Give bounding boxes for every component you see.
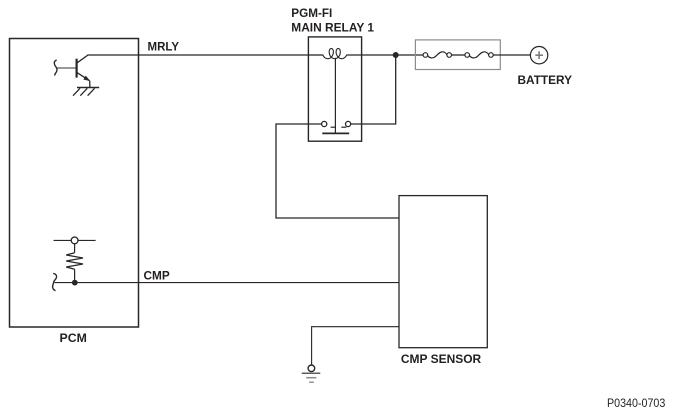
node junction (relay output) (393, 52, 399, 58)
svg-text:CMP SENSOR: CMP SENSOR (401, 352, 482, 366)
svg-text:CMP: CMP (144, 268, 170, 282)
wire MRLY (collector to relay coil) (88, 54, 309, 56)
svg-text:MAIN RELAY 1: MAIN RELAY 1 (291, 20, 374, 34)
wire relay coil stub (308, 54, 323, 56)
wire sensor to ground (312, 327, 399, 365)
ground (earth, sensor) (302, 365, 321, 382)
ground (chassis, emitter) (73, 81, 99, 96)
svg-text:P0340-0703: P0340-0703 (607, 397, 665, 410)
wire fuse box to battery (493, 54, 530, 56)
wire junction to fuse box (396, 54, 423, 56)
battery terminal B+ (530, 47, 547, 64)
transistor Q1 (54, 55, 90, 81)
relay box (PGM-FI MAIN RELAY 1) (308, 37, 361, 141)
svg-text:BATTERY: BATTERY (518, 73, 573, 87)
svg-text:PCM: PCM (60, 331, 87, 345)
relay switch contacts (322, 121, 351, 133)
wire coil armature link (334, 58, 336, 134)
svg-text:PGM-FI: PGM-FI (291, 6, 332, 20)
svg-text:MRLY: MRLY (148, 39, 180, 53)
wire coil to junction (346, 54, 395, 56)
wire switch left to CMP sensor (276, 124, 399, 218)
CMP SENSOR box (399, 196, 487, 348)
fuse box (415, 40, 500, 70)
wire between fuses (452, 54, 465, 56)
wire CMP (PCM to sensor) (55, 282, 400, 284)
wire break squiggle (CMP) (53, 273, 57, 290)
fuse F1 (423, 52, 451, 58)
relay coil L1 (323, 48, 347, 58)
wire switch right to junction (351, 55, 396, 124)
fuse F2 (465, 52, 493, 58)
resistor R1 (pull-up) (54, 237, 96, 282)
node CMP junction (72, 280, 78, 286)
PCM box (10, 39, 139, 328)
